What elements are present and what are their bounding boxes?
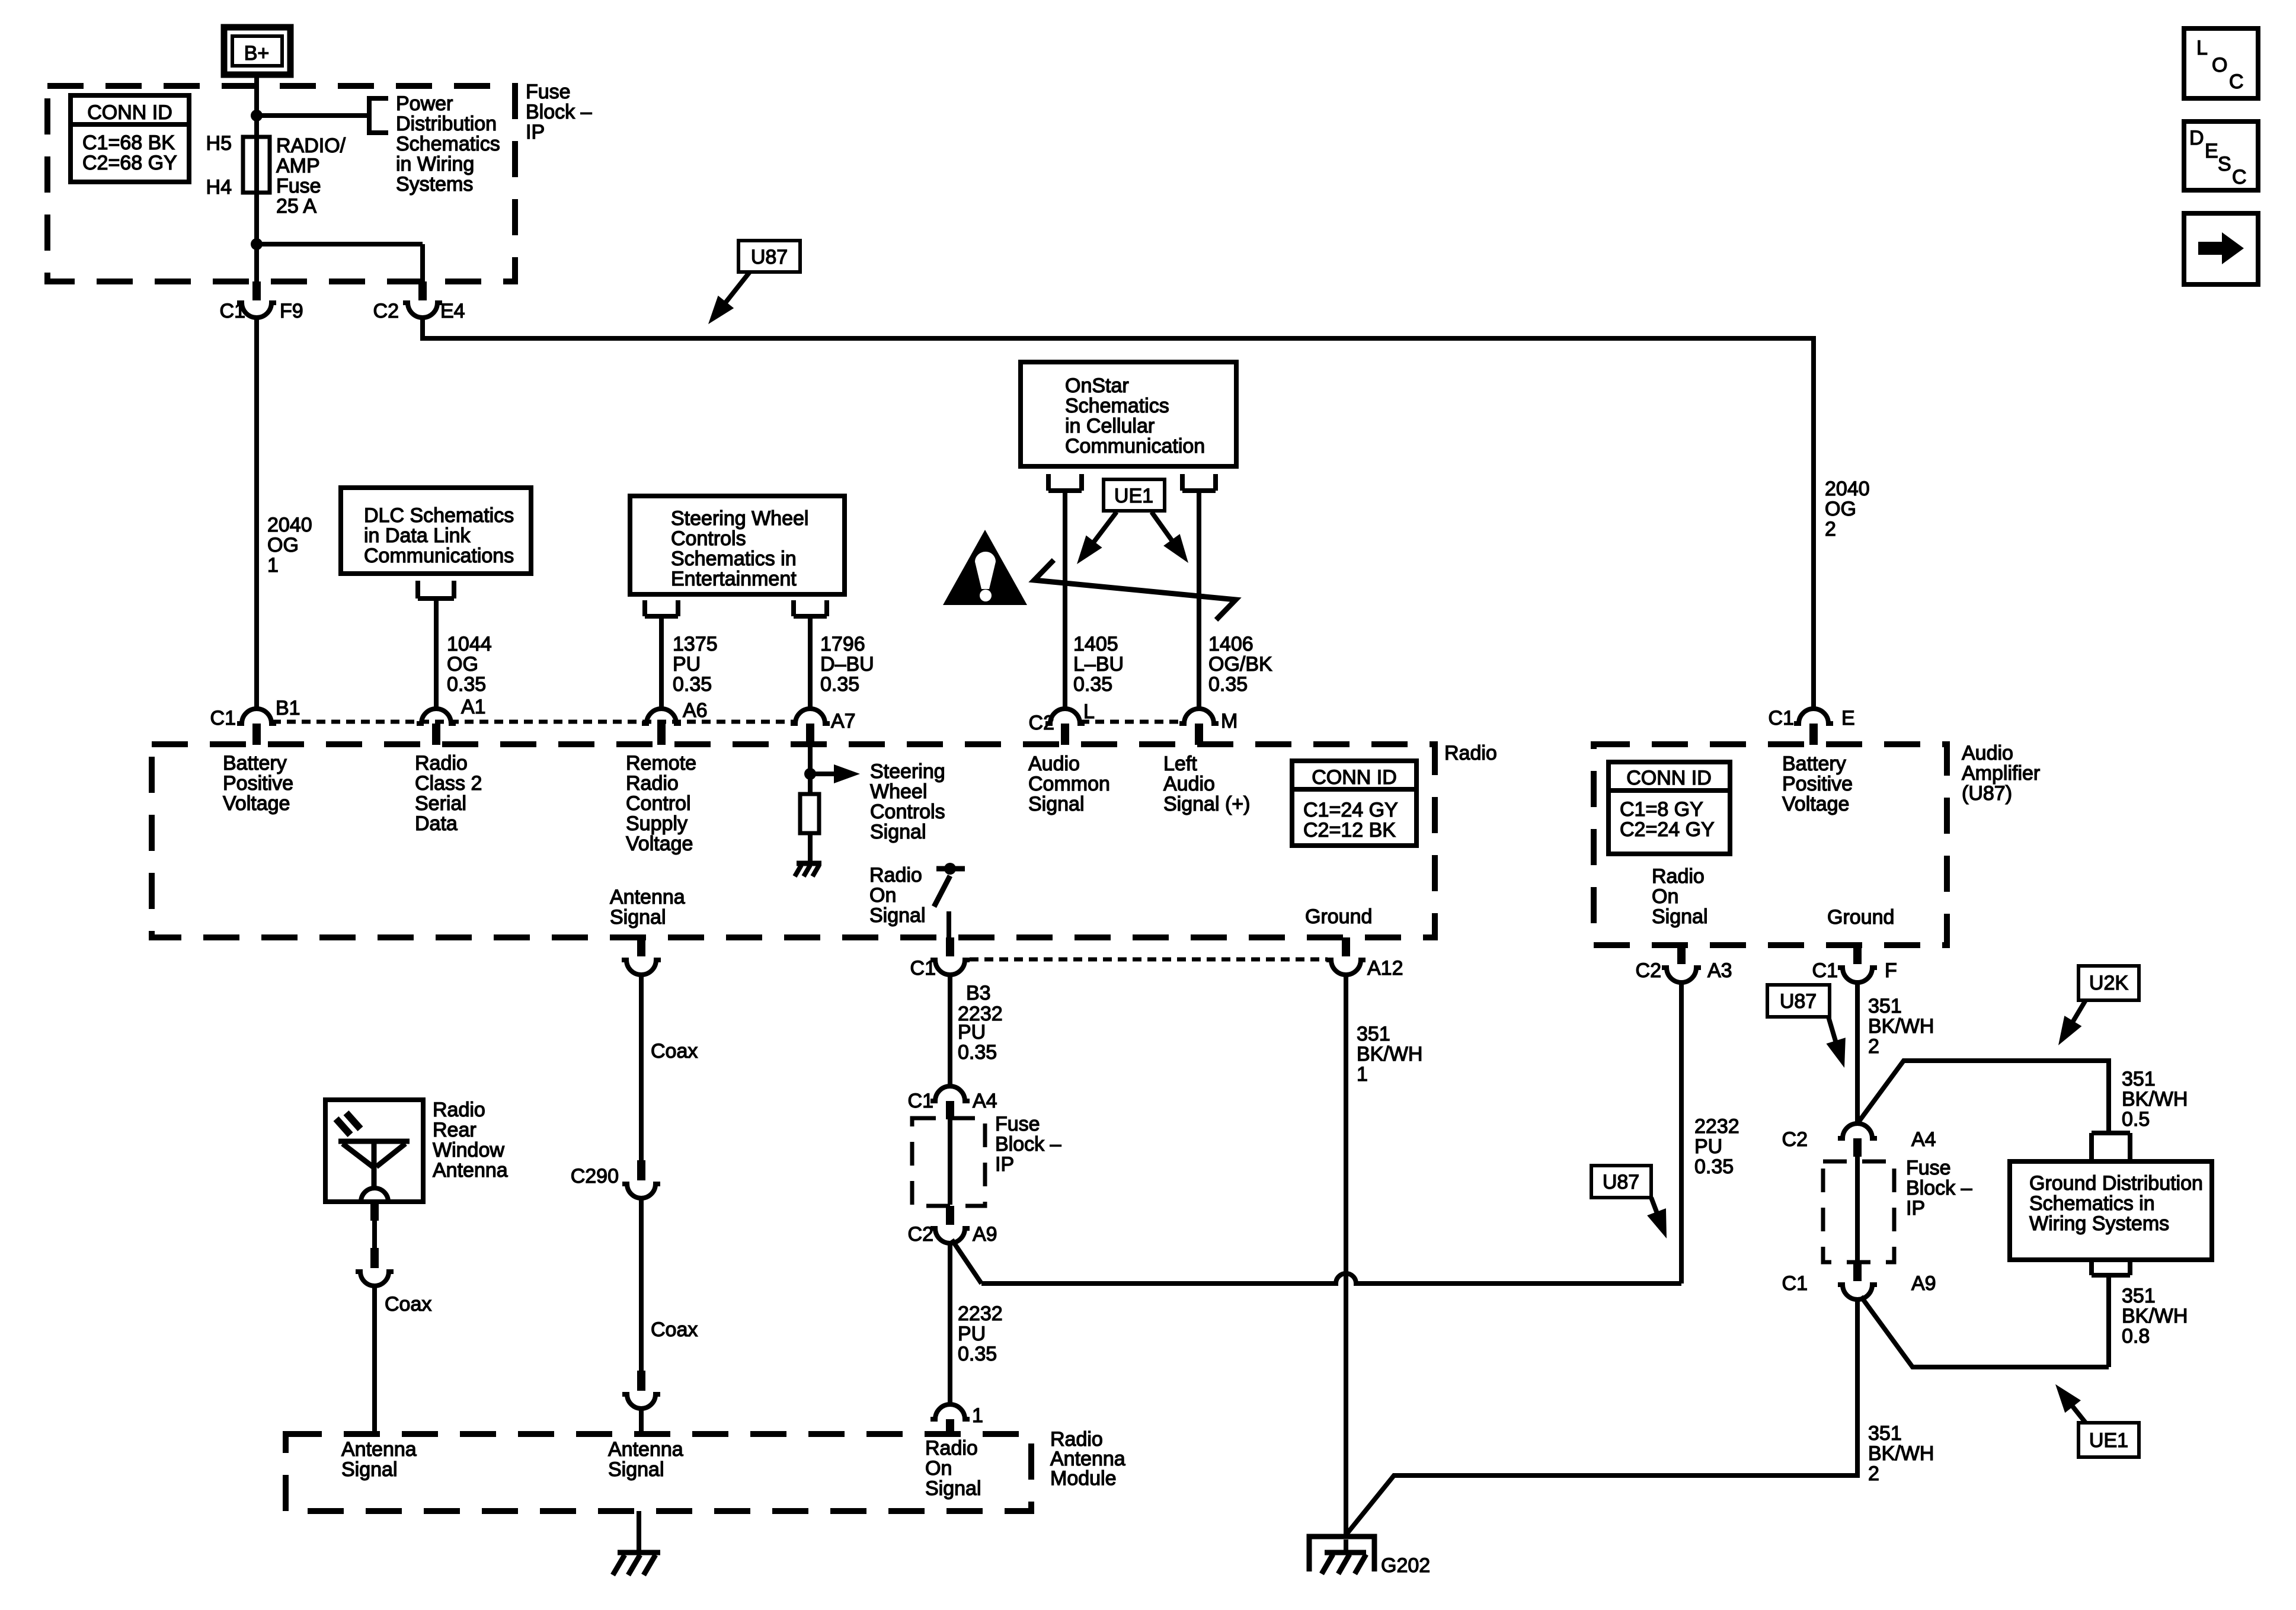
svg-text:(U87): (U87) [1962,782,2012,805]
svg-text:Module: Module [1050,1467,1117,1490]
svg-text:BK/WH: BK/WH [1868,1442,1934,1465]
svg-text:Wiring Systems: Wiring Systems [2029,1212,2169,1235]
svg-text:25 A: 25 A [276,195,316,217]
callout UE1 (bottom right) [2078,1423,2139,1457]
wire DLC to A1 [434,598,439,709]
wire A9 down to antenna module pin 1 [948,1243,952,1404]
svg-text:OG: OG [447,653,478,676]
svg-text:Antenna: Antenna [433,1159,508,1182]
svg-text:0.35: 0.35 [958,1041,997,1064]
svg-text:Signal: Signal [1652,905,1708,928]
svg-text:Antenna: Antenna [610,886,685,908]
svg-text:BK/WH: BK/WH [2122,1305,2188,1327]
off-page bracket below DLC [418,581,454,598]
svg-text:Entertainment: Entertainment [671,568,797,590]
connector C1 B3 (radio bottom) [910,937,991,1004]
svg-text:Voltage: Voltage [223,792,290,815]
connector C2 A3 (amplifier bottom) [1636,945,1732,982]
off-page bracket below ground distribution box [2092,1261,2130,1275]
svg-text:Coax: Coax [385,1293,431,1315]
svg-text:Antenna: Antenna [608,1438,683,1461]
wire to L [1063,491,1067,709]
svg-text:Ground Distribution: Ground Distribution [2029,1172,2203,1195]
label 351 BK/WH 0.5 [2122,1068,2188,1131]
label 2232 PU 0.35 (upper) [958,1003,1003,1064]
svg-text:OG: OG [267,534,299,556]
svg-text:Radio: Radio [869,864,922,886]
svg-text:A12: A12 [1367,957,1403,980]
label Remote Radio Control Supply Voltage [626,752,696,855]
svg-text:PU: PU [958,1021,986,1044]
wire A9 ground down and over to G202 [1347,1299,1857,1534]
radio antenna module dashed box [286,1434,1031,1511]
wire radio to C290 [639,975,644,1160]
wire F ground down to A4 [1855,982,1860,1124]
svg-text:Class 2: Class 2 [415,772,482,795]
svg-text:D: D [2189,127,2204,149]
svg-text:O: O [2212,54,2227,76]
svg-text:Remote: Remote [626,752,696,774]
dotted harness line B1-A7 [272,720,795,724]
svg-text:Wheel: Wheel [870,780,927,803]
svg-text:Fuse: Fuse [276,175,321,197]
wire diagonal to U2K branch [1857,1061,2109,1133]
svg-text:Signal: Signal [925,1477,981,1500]
svg-text:CONN ID: CONN ID [1626,767,1712,789]
svg-text:Steering Wheel: Steering Wheel [671,507,808,530]
svg-text:A6: A6 [683,699,708,722]
svg-text:Schematics in: Schematics in [671,548,797,570]
label 1405 L-BU 0.35 [1073,633,1124,696]
svg-text:A9: A9 [1911,1272,1936,1295]
label Steering Wheel Controls Signal [870,760,945,843]
svg-text:Positive: Positive [1782,773,1853,795]
svg-text:BK/WH: BK/WH [1868,1015,1934,1038]
node junction to power distribution [251,110,263,121]
ground distribution schematics box [2010,1161,2212,1260]
svg-text:351: 351 [1868,995,1902,1017]
label Radio On Signal (radio) [869,864,926,927]
label 351 BK/WH 1 [1357,1023,1422,1086]
callout U87 (above F wire) [1767,985,1830,1017]
wire F9 down to radio B1 [254,318,259,709]
svg-text:351: 351 [1357,1023,1390,1045]
svg-text:AMP: AMP [276,155,320,177]
svg-text:0.5: 0.5 [2122,1108,2150,1131]
svg-text:1: 1 [267,554,279,577]
svg-text:L–BU: L–BU [1073,653,1124,676]
arrow U87 to F wire [1828,1017,1836,1043]
svg-text:C1=24 GY: C1=24 GY [1303,799,1398,821]
svg-text:Communication: Communication [1065,435,1205,457]
svg-text:Block –: Block – [1906,1177,1972,1199]
switch Radio On (radio internal) [934,863,965,937]
chassis ground (radio internal) [795,863,821,876]
wire to A6 [659,616,664,709]
svg-text:Amplifier: Amplifier [1962,762,2040,785]
svg-text:Window: Window [433,1139,504,1161]
svg-text:C1=68 BK: C1=68 BK [82,132,175,154]
label Antenna Signal (module middle) [608,1438,683,1481]
svg-text:On: On [925,1457,952,1480]
svg-text:Ground: Ground [1305,905,1372,928]
svg-text:Battery: Battery [1782,753,1846,775]
svg-text:A1: A1 [461,696,486,718]
wire diagonal A9 to radio-on run [952,1240,981,1283]
svg-text:E: E [2205,140,2218,162]
svg-text:M: M [1221,710,1237,732]
label Fuse Block IP (left bottom) [995,1113,1061,1176]
svg-text:351: 351 [2122,1068,2156,1090]
svg-text:RADIO/: RADIO/ [276,135,346,157]
svg-text:2: 2 [1868,1462,1879,1485]
svg-text:0.8: 0.8 [2122,1325,2150,1347]
wire junction to E4 drop [257,244,423,281]
svg-text:Power: Power [396,92,453,115]
svg-text:Fuse: Fuse [1906,1157,1951,1179]
fuse block IP dashed box (right bottom) [1823,1161,1894,1262]
svg-text:U2K: U2K [2089,972,2128,994]
CONN ID table (fuse block) [71,95,189,182]
svg-text:UE1: UE1 [1114,485,1153,507]
arrow UE1 to wire [2070,1403,2086,1423]
svg-text:B+: B+ [244,42,270,65]
svg-text:0.35: 0.35 [673,673,712,696]
label 351 BK/WH 2 (top) [1868,995,1934,1058]
wire C290 to lower coax connector [639,1198,644,1371]
chassis ground (antenna module) [613,1553,660,1575]
svg-text:IP: IP [1906,1197,1925,1219]
svg-text:Radio: Radio [433,1099,485,1121]
wire A7 to resistor [808,744,813,794]
label Radio On Signal (amplifier) [1652,865,1708,928]
svg-text:F9: F9 [280,300,303,322]
connector C2 E4 [373,281,465,322]
svg-text:A3: A3 [1707,959,1732,982]
connector A6 [642,699,708,745]
G202 ground [1309,1537,1430,1577]
inline coax connector (left) [356,1248,431,1315]
radio rear window antenna box [325,1099,508,1202]
label 1044 OG 0.35 [447,633,492,696]
svg-text:PU: PU [958,1323,986,1345]
wire through fuse block [948,1119,952,1205]
svg-text:C1: C1 [1769,707,1794,729]
svg-text:Signal (+): Signal (+) [1163,793,1250,815]
svg-text:A9: A9 [973,1223,997,1246]
svg-text:C1: C1 [1782,1272,1808,1295]
off-page bracket left below OnStar [1048,474,1082,491]
fuse RADIO/AMP 25A [206,132,346,217]
svg-text:Ground: Ground [1827,906,1894,929]
svg-text:C: C [2229,71,2244,93]
svg-text:351: 351 [2122,1285,2156,1307]
wire diagonal A9 to UE1 branch [1861,1297,2109,1367]
svg-text:C2=24 GY: C2=24 GY [1620,818,1715,841]
connector C290 [571,1160,660,1198]
svg-text:1405: 1405 [1073,633,1118,655]
wire through right fuse block [1855,1157,1860,1261]
svg-text:Radio: Radio [415,752,468,774]
wire E4 to audio amplifier E (long run) [423,318,1814,709]
connector C1 F9 [220,281,303,322]
svg-text:OG/BK: OG/BK [1208,653,1272,676]
label Radio Class 2 Serial Data [415,752,482,835]
label 1406 OG/BK 0.35 [1208,633,1272,696]
svg-text:Systems: Systems [396,173,473,196]
svg-text:Supply: Supply [626,812,687,835]
label Radio Antenna Module [1050,1428,1125,1490]
svg-text:U87: U87 [1780,990,1817,1013]
svg-text:On: On [869,884,896,907]
svg-text:1044: 1044 [447,633,492,655]
svg-text:C2=12 BK: C2=12 BK [1303,819,1396,841]
svg-text:Controls: Controls [671,527,746,550]
label 2232 PU 0.35 (amplifier) [1694,1115,1739,1178]
warning triangle [943,530,1027,605]
antenna symbol [336,1113,410,1188]
label Fuse Block IP (right bottom) [1906,1157,1972,1219]
svg-text:1406: 1406 [1208,633,1253,655]
svg-text:0.35: 0.35 [820,673,859,696]
label Radio On Signal (module) [925,1437,981,1500]
off-page bracket right below OnStar [1182,474,1216,491]
svg-text:C2=68 GY: C2=68 GY [82,152,177,174]
audio amplifier dashed box [1594,744,1947,945]
svg-text:Schematics: Schematics [1065,395,1169,417]
svg-text:L: L [1083,700,1095,723]
label Battery Positive Voltage (radio) [223,752,293,815]
connector A7 [791,709,856,745]
B+ battery terminal symbol [224,27,290,75]
connector C2 A4 (right fuse block) [1782,1124,1936,1157]
wire break symbol across OnStar wires [1034,560,1236,620]
label Power Distribution Schematics [396,92,500,196]
svg-text:Positive: Positive [223,772,293,795]
svg-text:351: 351 [1868,1422,1902,1445]
svg-text:Distribution: Distribution [396,113,497,135]
svg-text:IP: IP [526,121,545,143]
inline coax connector (lower) [622,1371,660,1409]
callout UE1 (OnStar) [1104,479,1165,511]
svg-text:Signal: Signal [610,906,666,929]
svg-text:C1: C1 [220,300,245,322]
svg-text:CONN ID: CONN ID [1312,766,1397,789]
label Audio Amplifier (U87) [1962,742,2040,805]
svg-text:BK/WH: BK/WH [2122,1088,2188,1110]
svg-text:0.35: 0.35 [958,1343,997,1365]
arrow U87 to A3 wire [1651,1198,1659,1219]
svg-text:1: 1 [972,1404,983,1427]
svg-text:Left: Left [1163,753,1197,775]
svg-text:Audio: Audio [1962,742,2013,764]
connector Ground A12 (radio bottom) [1326,937,1403,980]
svg-text:L: L [2196,37,2208,59]
node junction to C2 E4 [251,238,263,250]
svg-text:Steering: Steering [870,760,945,783]
svg-text:B3: B3 [966,982,991,1004]
wire to A7 [808,616,813,709]
svg-text:E4: E4 [440,300,465,322]
label Antenna Signal (radio) [610,886,685,929]
dotted harness line L-M [1080,720,1184,724]
svg-text:C2: C2 [908,1223,933,1246]
svg-text:Communications: Communications [364,545,514,567]
svg-text:A4: A4 [1911,1128,1936,1151]
wire from bottom bracket down [2106,1275,2111,1367]
svg-text:0.35: 0.35 [1208,673,1248,696]
connector A1 [417,696,486,745]
svg-text:C290: C290 [571,1165,619,1188]
off-page bracket right below steering box [794,600,827,616]
arrow legend box [2184,213,2258,284]
svg-text:1796: 1796 [820,633,865,655]
wire A3 radio-on down to horizontal run [1679,982,1684,1283]
svg-text:IP: IP [995,1153,1014,1176]
connector C1 A9 (right fuse block) [1782,1262,1936,1299]
steering wheel controls box [630,496,845,594]
svg-text:Signal: Signal [1028,793,1085,815]
fuse block IP dashed box (top) [47,86,515,281]
CONN ID table (amplifier) [1609,762,1730,854]
svg-text:Antenna: Antenna [341,1438,417,1461]
wire B3 to A4 [948,975,952,1086]
svg-text:2040: 2040 [1825,478,1870,500]
connector pin 1 (antenna module) [930,1404,983,1434]
svg-text:C1: C1 [908,1090,933,1112]
arrow U87 to wire [718,272,750,312]
callout U87 (top) [738,241,800,272]
svg-text:C1: C1 [1812,959,1838,982]
svg-text:C2: C2 [1636,959,1661,982]
connector antenna box bottom [361,1188,388,1221]
DESC legend box [2184,121,2258,190]
svg-text:2232: 2232 [1694,1115,1739,1138]
svg-text:Coax: Coax [651,1040,698,1062]
svg-text:S: S [2218,153,2231,175]
svg-text:A4: A4 [973,1090,997,1112]
node junction steering signal [804,768,816,780]
off-page bracket Power Distribution [367,96,388,135]
DLC schematics box [341,488,531,574]
connector C1 A4 (left fuse block) [908,1086,997,1119]
svg-text:Signal: Signal [870,821,926,843]
svg-text:Radio: Radio [1444,742,1497,764]
svg-text:Control: Control [626,792,691,815]
svg-text:Data: Data [415,812,458,835]
svg-text:C2: C2 [1782,1128,1808,1151]
svg-text:Controls: Controls [870,801,945,823]
arrow to steering wheel controls signal [810,772,843,776]
svg-text:Rear: Rear [433,1119,477,1141]
svg-text:C: C [2232,166,2247,188]
svg-text:DLC Schematics: DLC Schematics [364,504,514,527]
svg-text:2: 2 [1825,518,1836,540]
label Antenna Signal (module left) [341,1438,417,1481]
svg-text:1: 1 [1357,1063,1368,1086]
connector C1 E (amplifier) [1769,707,1855,745]
svg-text:B1: B1 [276,697,300,719]
connector C2 L [1029,700,1095,745]
svg-text:0.35: 0.35 [1073,673,1112,696]
resistor (radio internal) [800,794,819,833]
connector C1 B1 [210,697,300,745]
wire coax to antenna module [372,1286,377,1434]
svg-text:PU: PU [1694,1135,1722,1158]
OnStar schematics box [1021,362,1236,466]
svg-text:OG: OG [1825,498,1856,520]
label 2040 OG 2 [1825,478,1870,540]
svg-text:Schematics: Schematics [396,133,500,155]
wire radio-on horizontal run with hop over ground wire [981,1273,1681,1283]
svg-text:D–BU: D–BU [820,653,874,676]
svg-text:H5: H5 [206,132,232,155]
arrow UE1 left [1091,512,1117,546]
wire to antenna module [639,1409,644,1434]
svg-text:Battery: Battery [223,752,287,774]
off-page bracket above ground distribution box [2092,1133,2130,1160]
off-page bracket left below steering box [645,600,678,616]
fuse block IP dashed box (left bottom) [912,1118,985,1206]
svg-text:UE1: UE1 [2089,1429,2128,1452]
wire B+ down through fuse to F9 [254,75,259,281]
label 351 BK/WH 2 (bottom) [1868,1422,1934,1485]
label 2040 OG 1 [267,514,312,577]
svg-text:G202: G202 [1381,1554,1430,1577]
svg-text:C1=8 GY: C1=8 GY [1620,798,1703,821]
svg-text:Audio: Audio [1163,773,1215,795]
svg-text:in Wiring: in Wiring [396,153,474,175]
svg-text:E: E [1841,707,1855,729]
connector C2 A9 (left fuse block) [908,1206,997,1246]
wire A12 ground down to G202 [1344,975,1348,1534]
label Left Audio Signal (+) [1163,753,1250,815]
wire module to chassis ground [637,1511,641,1551]
svg-text:0.35: 0.35 [447,673,486,696]
svg-text:OnStar: OnStar [1065,375,1129,397]
svg-text:Radio: Radio [925,1437,978,1459]
label 351 BK/WH 0.8 [2122,1285,2188,1347]
svg-text:U87: U87 [1603,1171,1639,1193]
svg-text:Voltage: Voltage [626,833,693,855]
svg-text:Signal: Signal [608,1458,664,1481]
svg-text:C2: C2 [373,300,399,322]
svg-text:C1: C1 [910,957,936,980]
svg-text:1375: 1375 [673,633,718,655]
wire to M [1197,491,1201,709]
wire junction to bracket [257,113,369,118]
wire resistor to ground [808,833,813,863]
svg-text:Signal: Signal [341,1458,398,1481]
svg-text:Voltage: Voltage [1782,793,1849,815]
svg-text:0.35: 0.35 [1694,1156,1734,1178]
svg-text:Audio: Audio [1028,753,1080,775]
svg-text:Serial: Serial [415,792,466,815]
callout U2K [2078,966,2139,1000]
connector Antenna Signal (radio bottom) [622,937,661,975]
svg-text:in Data Link: in Data Link [364,524,471,547]
connector C1 F (amplifier bottom) [1812,945,1897,982]
svg-text:Common: Common [1028,773,1110,795]
connector M [1179,709,1237,745]
svg-text:C2: C2 [1029,712,1054,734]
radio dashed box [152,744,1435,937]
svg-text:Fuse: Fuse [995,1113,1040,1135]
svg-text:Fuse: Fuse [526,81,571,103]
svg-text:Radio: Radio [626,772,679,795]
arrow U2K to wire [2071,1000,2086,1025]
svg-text:On: On [1652,885,1678,908]
